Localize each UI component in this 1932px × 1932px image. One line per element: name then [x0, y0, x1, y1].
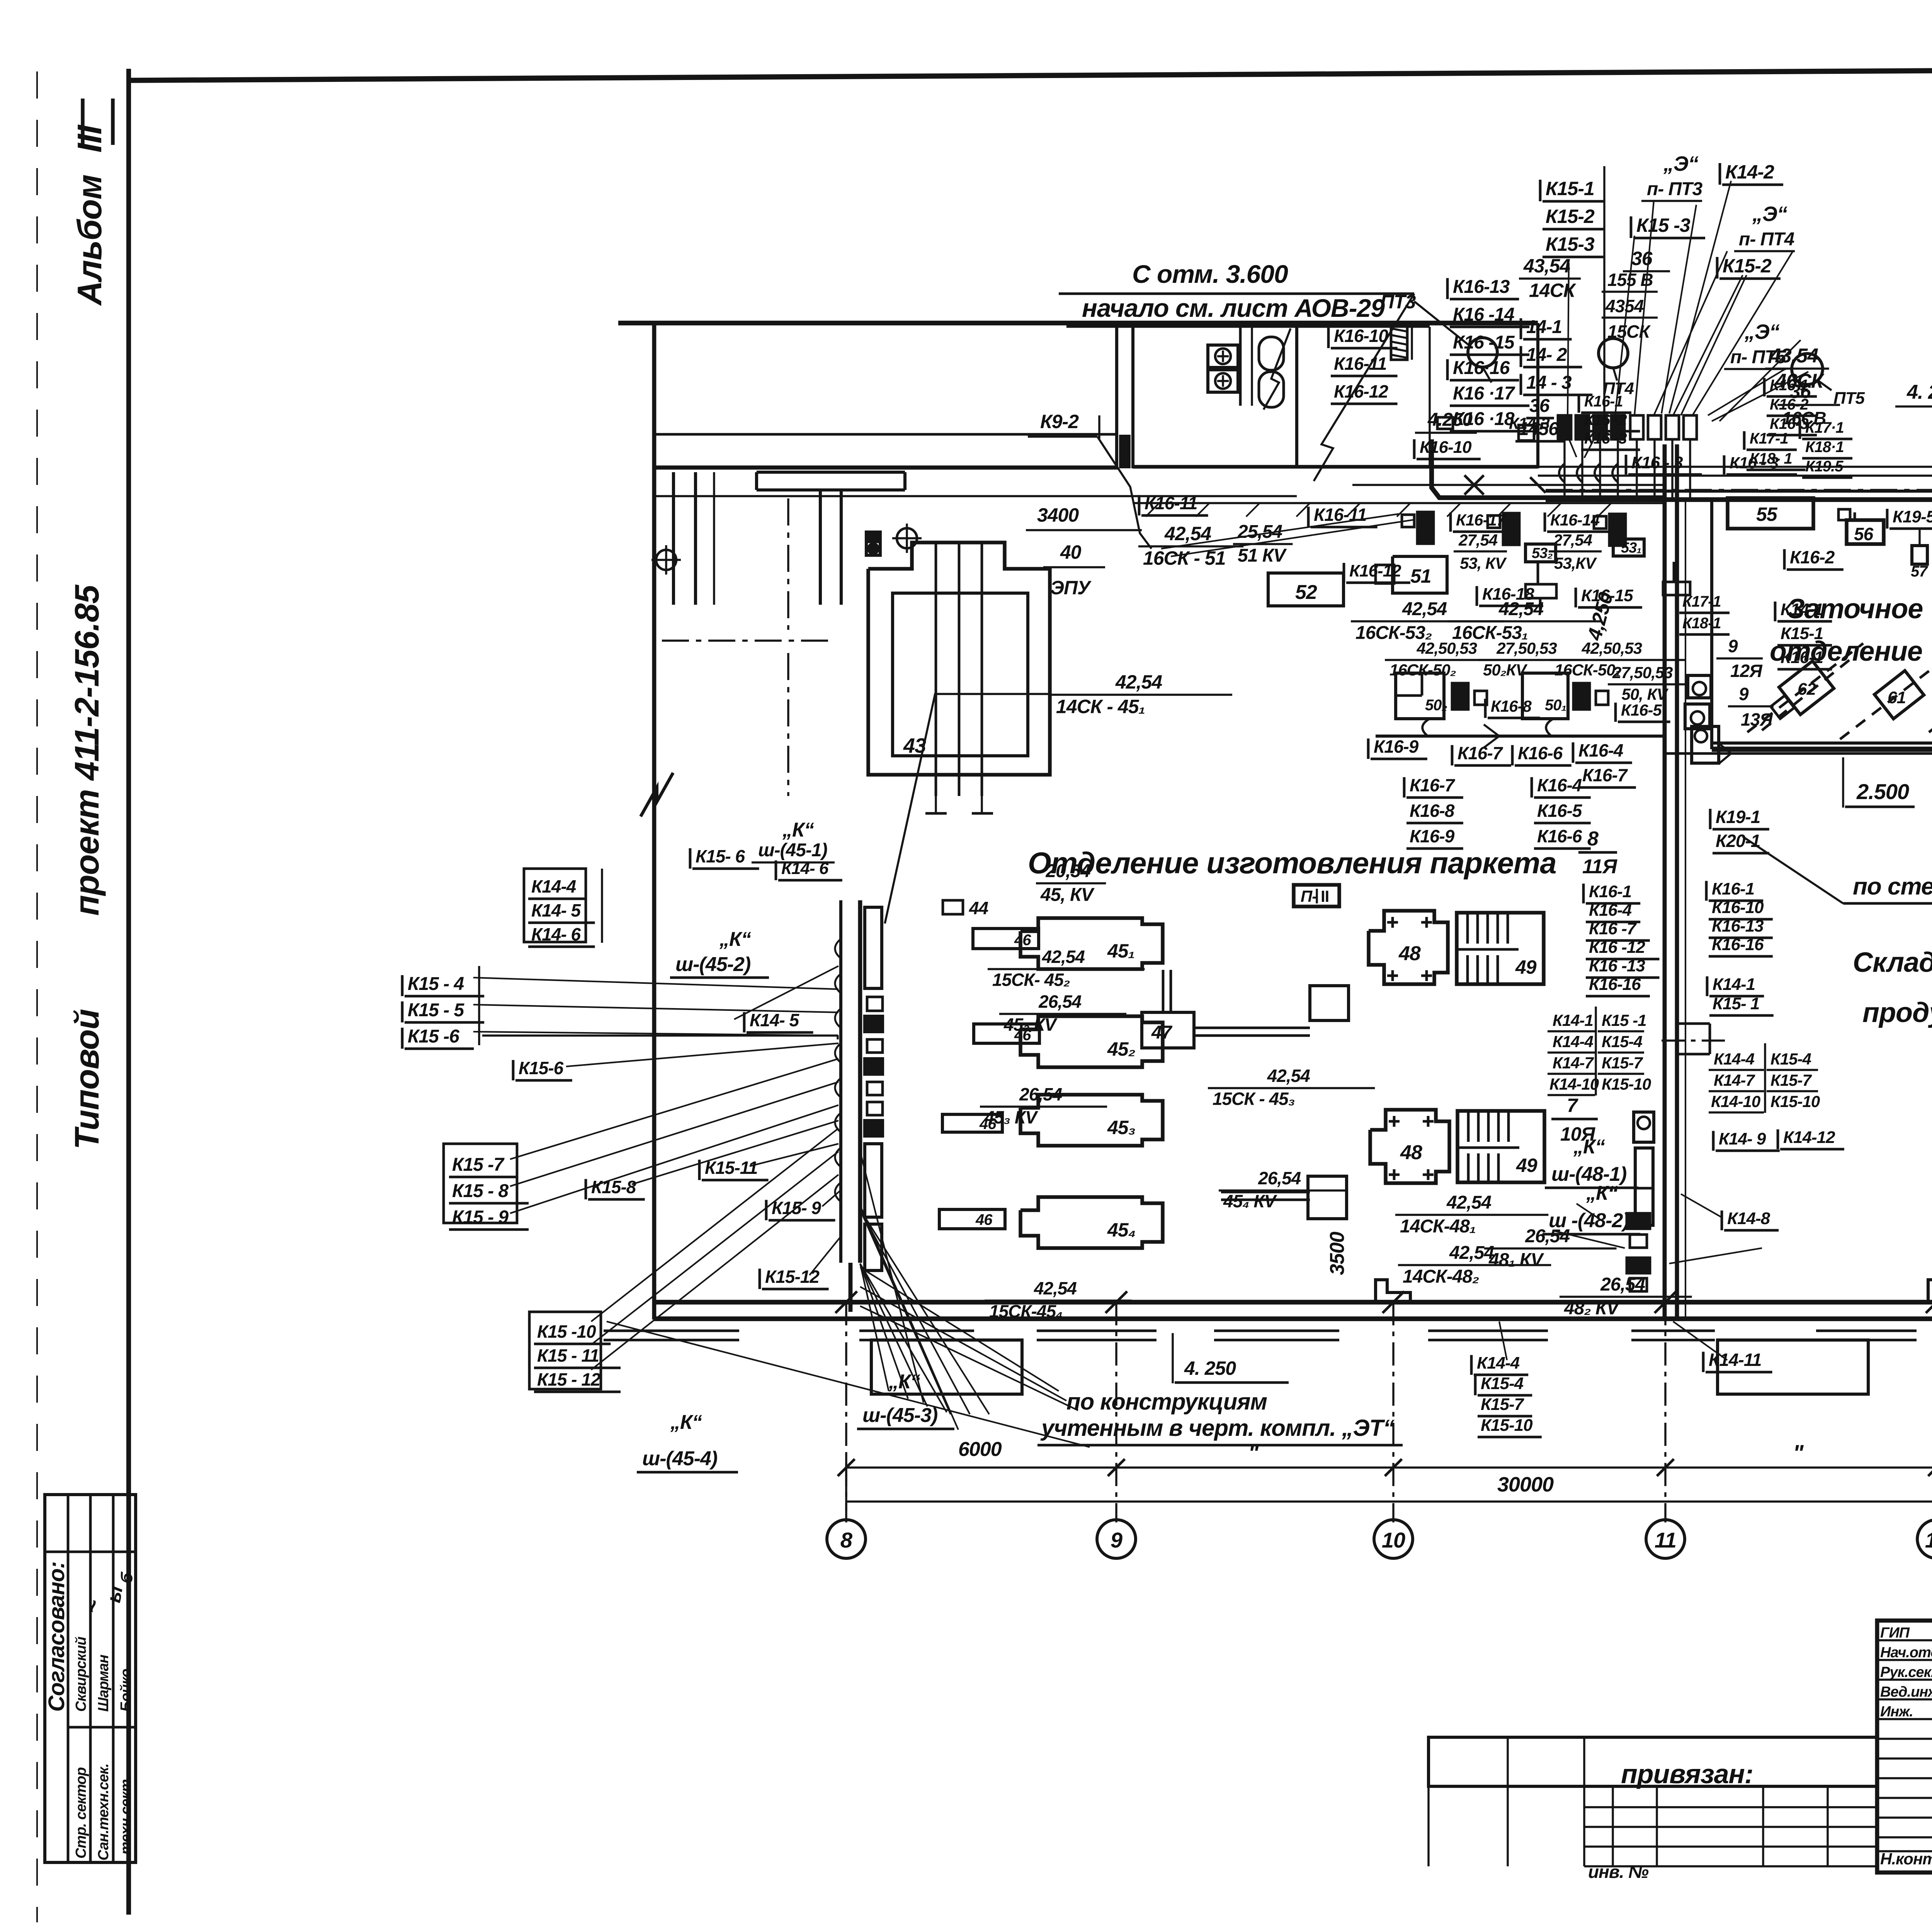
svg-text:15СК-45₄: 15СК-45₄ [989, 1301, 1063, 1321]
centerline dash-dot room43 [662, 639, 835, 641]
porch rect right [1718, 1340, 1868, 1394]
damper pair B [1488, 515, 1500, 528]
conveyor lower 48 [1221, 1191, 1310, 1194]
svg-text:45₁: 45₁ [1107, 940, 1134, 962]
machine 53-2 [1526, 544, 1556, 562]
fan from sh45-3 labels [860, 1264, 889, 1391]
svg-text:3500: 3500 [1326, 1231, 1349, 1275]
vertical dashdot through room 43 area [787, 498, 789, 630]
wall: under corridor T-beam [757, 471, 905, 474]
svg-text:42,54: 42,54 [1498, 599, 1543, 619]
svg-text:ш-(45-4): ш-(45-4) [642, 1447, 717, 1470]
svg-text:49: 49 [1516, 1155, 1537, 1176]
porch rect left [871, 1340, 1022, 1394]
stack К15-10/11/12 boxed [529, 1312, 601, 1389]
floor edge lines above wall [1538, 466, 1932, 468]
svg-text:К15-7: К15-7 [1481, 1395, 1525, 1414]
svg-text:„К“: „К“ [1573, 1136, 1605, 1158]
wall: bottom outer line [654, 1300, 1932, 1304]
svg-text:К16-6: К16-6 [1518, 743, 1563, 763]
svg-text:К16-1: К16-1 [1589, 882, 1631, 901]
svg-text:К16 -13: К16 -13 [1589, 956, 1645, 975]
wall: toilet block right wall [1536, 323, 1539, 468]
svg-text:Согласовано:: Согласовано: [44, 1561, 69, 1712]
svg-text:К15 -7: К15 -7 [452, 1155, 505, 1175]
svg-text:К16-6: К16-6 [1537, 826, 1582, 846]
wall: zatochnoe bottom lower [1712, 747, 1932, 752]
svg-text:ш-(45-3): ш-(45-3) [862, 1404, 937, 1427]
small box with circle 13Я [1685, 704, 1710, 729]
svg-text:52: 52 [1295, 581, 1317, 604]
svg-text:К15-4: К15-4 [1481, 1374, 1524, 1393]
svg-text:20,54: 20,54 [1045, 861, 1090, 881]
svg-text:„К“: „К“ [670, 1411, 702, 1434]
toilet right room fixtures [1429, 327, 1430, 467]
svg-text:ЭПУ: ЭПУ [1050, 577, 1092, 599]
svg-text:43,54: 43,54 [1523, 255, 1570, 277]
svg-text:К15-2: К15-2 [1546, 206, 1595, 227]
svg-text:Отделение изготовления паркета: Отделение изготовления паркета [1028, 846, 1556, 880]
svg-text:10: 10 [1382, 1528, 1405, 1552]
svg-text:К14-1: К14-1 [1713, 975, 1755, 994]
svg-text:Склад готовой: Склад готовой [1853, 947, 1932, 978]
svg-text:К9-2: К9-2 [1040, 411, 1079, 432]
svg-text:45₄: 45₄ [1107, 1219, 1136, 1241]
wall: bottom inner line [654, 1316, 1932, 1321]
svg-text:46: 46 [975, 1211, 993, 1228]
fan to по конструкциям [860, 1267, 1059, 1391]
feeder 46 for 453 [942, 1114, 1002, 1132]
conveyor 47 to 48 [1194, 1027, 1310, 1029]
svg-text:48: 48 [1398, 942, 1421, 965]
wall: zatochnoe bottom upper [1712, 742, 1932, 745]
wall: left wall of building [652, 323, 656, 1320]
svg-text:42,54: 42,54 [1446, 1192, 1491, 1213]
damper pair C [1594, 516, 1606, 529]
svg-text:42,54: 42,54 [1402, 599, 1447, 619]
svg-text:К14- 6: К14- 6 [531, 924, 581, 944]
svg-text:14- 2: 14- 2 [1526, 345, 1567, 365]
svg-text:49: 49 [1515, 956, 1537, 978]
svg-text:45₂: 45₂ [1107, 1038, 1135, 1060]
svg-text:К15-7: К15-7 [1770, 1071, 1812, 1089]
wall: pillar hatched left [672, 472, 675, 605]
wall channel components right [1634, 1112, 1654, 1142]
svg-text:К16-14: К16-14 [1550, 511, 1600, 529]
svg-text:Нач.отд.: Нач.отд. [1880, 1645, 1932, 1661]
corner component at channel bottom [1692, 726, 1719, 763]
label 44 box [943, 900, 963, 914]
svg-text:К15- 9: К15- 9 [772, 1198, 821, 1218]
svg-text:Шарман: Шарман [95, 1655, 112, 1712]
page frame: top border [129, 66, 1932, 80]
svg-text:48: 48 [1400, 1141, 1422, 1164]
svg-text:К16 -2: К16 -2 [1584, 412, 1627, 429]
svg-text:7: 7 [1567, 1095, 1578, 1116]
duct hook arcs [835, 939, 841, 958]
svg-text:К14- 5: К14- 5 [750, 1010, 800, 1030]
wall: thick wall K9-2 duct [1115, 323, 1118, 468]
svg-text:К15- 1: К15- 1 [1713, 994, 1759, 1013]
svg-text:45₄ КV: 45₄ КV [1223, 1191, 1277, 1211]
wall: toilet partition [1295, 325, 1298, 467]
feeder 48 lower [1308, 1176, 1347, 1219]
svg-text:8: 8 [1587, 828, 1599, 850]
svg-text:26,54: 26,54 [1525, 1226, 1570, 1247]
svg-text:ш-(45-2): ш-(45-2) [675, 953, 750, 976]
svg-text:К16 ·17: К16 ·17 [1453, 383, 1515, 404]
svg-text:ш-(45-1): ш-(45-1) [758, 840, 827, 861]
svg-text:50, КV: 50, КV [1622, 685, 1669, 703]
svg-text:53₁: 53₁ [1621, 540, 1641, 556]
svg-text:техн.сект.: техн.сект. [118, 1776, 134, 1855]
svg-text:36: 36 [1790, 381, 1811, 402]
svg-text:К14-1: К14-1 [1553, 1011, 1593, 1029]
duct channel vertical left [839, 900, 842, 1263]
svg-text:К16-7: К16-7 [1458, 743, 1503, 763]
svg-text:30000: 30000 [1497, 1473, 1554, 1496]
svg-text:26,54: 26,54 [1019, 1084, 1062, 1104]
svg-text:К16-4: К16-4 [1578, 740, 1623, 760]
svg-text:К14-3: К14-3 [1509, 414, 1550, 432]
svg-text:50₂: 50₂ [1425, 697, 1447, 714]
svg-text:Инж.: Инж. [1880, 1704, 1913, 1720]
svg-text:4. 250: 4. 250 [1906, 381, 1932, 403]
svg-text:„К“: „К“ [782, 819, 814, 841]
svg-text:по стене на скобах: по стене на скобах [1853, 873, 1932, 900]
column axis lines [845, 1302, 847, 1522]
svg-text:инв. №: инв. № [1588, 1862, 1649, 1882]
svg-text:57: 57 [1911, 563, 1928, 580]
svg-text:К16-12: К16-12 [1349, 561, 1401, 580]
stack К14-4/5/6 boxed [524, 869, 586, 942]
svg-text:привязан:: привязан: [1621, 1759, 1753, 1789]
duct components column [865, 907, 882, 988]
wall: central channel left [1663, 444, 1667, 1319]
svg-text:К16-13: К16-13 [1712, 917, 1764, 935]
svg-text:„Э“: „Э“ [1752, 202, 1787, 226]
svg-text:47: 47 [1151, 1022, 1173, 1043]
damper row boxes [1558, 415, 1571, 439]
machine 55 [1728, 498, 1813, 529]
svg-text:": " [1793, 1440, 1804, 1466]
wall: zatochnoe top inner [1546, 497, 1932, 502]
svg-text:Сан.техн.сек.: Сан.техн.сек. [95, 1764, 112, 1861]
svg-text:К15-1: К15-1 [1546, 178, 1594, 199]
svg-text:К15 - 9: К15 - 9 [452, 1207, 509, 1228]
feeder 46 for 451 [973, 929, 1039, 949]
svg-text:К15 - 12: К15 - 12 [537, 1369, 601, 1389]
damper near 50-1 [1573, 683, 1590, 709]
machine 45&#8321; body [1020, 918, 1163, 969]
svg-text:К16-8: К16-8 [1410, 801, 1455, 821]
svg-text:К15-10: К15-10 [1602, 1075, 1651, 1093]
svg-text:27,54: 27,54 [1458, 531, 1498, 549]
svg-text:Заточное: Заточное [1787, 594, 1923, 624]
svg-text:15СК: 15СК [1607, 321, 1651, 342]
box П-II [1294, 885, 1339, 906]
wall: central channel right [1675, 444, 1679, 1319]
door bump bottom 2 [1928, 1280, 1932, 1302]
svg-text:36: 36 [1529, 396, 1550, 416]
svg-text:„Э“: „Э“ [1663, 152, 1699, 175]
svg-text:К14-8: К14-8 [1727, 1209, 1770, 1228]
svg-text:К17·1: К17·1 [1805, 419, 1844, 436]
room 43 outer box [868, 543, 1050, 775]
svg-text:К14-7: К14-7 [1553, 1054, 1594, 1072]
wall: zatochnoe top outer [1546, 490, 1932, 493]
approval table box [45, 1495, 136, 1862]
svg-text:„Э“: „Э“ [1744, 320, 1780, 344]
svg-text:К16-4: К16-4 [1537, 775, 1582, 795]
page frame: left margin dashed fold line [36, 71, 38, 1922]
dimension line 30000 row [846, 1500, 1932, 1502]
svg-text:4.250: 4.250 [1427, 410, 1473, 430]
machine 50-2 [1396, 673, 1444, 719]
svg-text:К16-16: К16-16 [1589, 975, 1641, 994]
svg-text:11: 11 [1655, 1528, 1676, 1552]
svg-text:9: 9 [1111, 1528, 1122, 1552]
leader fan from cluster to damper row [1584, 419, 1604, 458]
svg-text:К16-7: К16-7 [1582, 765, 1628, 785]
svg-text:К14- 9: К14- 9 [1719, 1129, 1766, 1148]
svg-text:К14-7: К14-7 [1714, 1071, 1755, 1089]
machine 49 grate [1457, 913, 1544, 984]
svg-text:К16-16: К16-16 [1712, 935, 1764, 954]
column symbol mid [897, 528, 917, 548]
svg-text:46: 46 [1014, 932, 1031, 949]
svg-text:II: II [1321, 887, 1329, 905]
svg-text:п- ПТ4: п- ПТ4 [1739, 229, 1794, 250]
svg-text:48₂ КV: 48₂ КV [1564, 1298, 1621, 1319]
svg-text:45, КV: 45, КV [1040, 885, 1095, 905]
svg-text:по конструкциям: по конструкциям [1066, 1389, 1267, 1415]
machine 45&#8324; body [1020, 1197, 1163, 1248]
svg-text:С отм. 3.600: С отм. 3.600 [1132, 260, 1288, 288]
duct elbow bottom to wall [849, 1263, 853, 1312]
svg-text:К16-9: К16-9 [1374, 736, 1419, 757]
svg-text:„К“: „К“ [888, 1371, 920, 1393]
svg-text:Рук.сек.: Рук.сек. [1880, 1664, 1932, 1680]
svg-text:проект 411-2-156.85: проект 411-2-156.85 [68, 584, 106, 916]
duct arrows mid [1484, 736, 1499, 748]
svg-text:ГИП: ГИП [1880, 1625, 1910, 1641]
slab edge right part [1352, 484, 1665, 486]
svg-text:К16-9: К16-9 [1410, 826, 1455, 846]
svg-text:12Я: 12Я [1730, 661, 1763, 681]
duct arrows on zatochnoe wall [1719, 753, 1731, 763]
dimension line 6000 row [846, 1466, 1932, 1468]
svg-text:48₁ КV: 48₁ КV [1488, 1250, 1544, 1270]
left fan leader lines [473, 978, 838, 989]
svg-text:К16 -12: К16 -12 [1589, 938, 1645, 957]
svg-text:П-: П- [1301, 887, 1317, 905]
column symbol left [656, 550, 676, 570]
machine 48 cross [1369, 911, 1448, 984]
svg-text:К15- 6: К15- 6 [696, 846, 745, 866]
svg-text:42,54: 42,54 [1449, 1243, 1494, 1263]
PT4 circle [1599, 338, 1628, 368]
slab edge line 4.250 over hall [1133, 502, 1663, 504]
PT5 circle [1792, 354, 1823, 384]
svg-text:III: III [70, 124, 109, 153]
svg-text:К19-5: К19-5 [1893, 507, 1932, 526]
svg-text:51: 51 [1410, 565, 1431, 587]
svg-text:К14-10: К14-10 [1549, 1075, 1599, 1093]
svg-text:К15-4: К15-4 [1770, 1050, 1811, 1068]
svg-text:55: 55 [1756, 503, 1778, 525]
svg-text:К15-12: К15-12 [765, 1267, 820, 1287]
svg-text:К19-1: К19-1 [1716, 807, 1760, 827]
svg-text:К15 - 4: К15 - 4 [408, 974, 464, 994]
svg-text:Н.контр: Н.контр [1880, 1850, 1932, 1868]
svg-text:К18-1: К18-1 [1682, 615, 1721, 632]
svg-text:42,54: 42,54 [1042, 947, 1085, 967]
svg-text:42,54: 42,54 [1034, 1278, 1077, 1298]
feeder 46 for 452 [974, 1024, 1039, 1043]
svg-text:К16 -14: К16 -14 [1453, 304, 1514, 325]
svg-text:61: 61 [1888, 688, 1906, 707]
duct line below zatochnoe wall [1665, 752, 1932, 755]
svg-text:27,50,53: 27,50,53 [1612, 663, 1673, 682]
svg-text:53, КV: 53, КV [1460, 554, 1507, 572]
toilet fixtures square left [1208, 345, 1238, 367]
svg-text:К17-1: К17-1 [1682, 593, 1721, 610]
svg-text:2.500: 2.500 [1856, 779, 1909, 804]
machine 57 [1912, 546, 1927, 564]
axis tick crosses at wall [835, 1291, 857, 1313]
svg-text:6000: 6000 [958, 1438, 1002, 1461]
svg-text:К17-1: К17-1 [1750, 430, 1788, 447]
svg-text:К16-5: К16-5 [1621, 701, 1662, 719]
machine 52 box [1268, 573, 1344, 606]
machine 45&#8323; body [1020, 1095, 1163, 1146]
svg-text:14СК-48₁: 14СК-48₁ [1400, 1216, 1476, 1237]
feeder 48 upper [1310, 986, 1349, 1020]
duct under 50 machines [1376, 735, 1663, 738]
svg-text:К15-11: К15-11 [705, 1158, 758, 1178]
machine 62 rotated [1779, 661, 1834, 715]
wall: central channel third [1685, 500, 1686, 1319]
leaders channel bottom [1577, 1204, 1600, 1219]
wall channel tee [1677, 1022, 1710, 1025]
svg-text:42,54: 42,54 [1267, 1066, 1310, 1086]
vertical line from К15 stack [1603, 166, 1605, 417]
svg-text:К16-7: К16-7 [1410, 775, 1456, 795]
svg-text:К15-6: К15-6 [519, 1058, 564, 1078]
svg-text:Сквирский: Сквирский [73, 1636, 89, 1712]
svg-text:К16·16: К16·16 [1453, 358, 1510, 378]
svg-text:К20-1: К20-1 [1716, 831, 1760, 851]
svg-text:53,КV: 53,КV [1554, 554, 1597, 572]
black dampers at channel bottom [1627, 1213, 1650, 1229]
svg-text:45₃: 45₃ [1107, 1117, 1135, 1138]
svg-text:К16 -15: К16 -15 [1453, 332, 1515, 353]
toilet stall lines [1239, 327, 1242, 406]
svg-text:К14-12: К14-12 [1783, 1128, 1835, 1147]
svg-text:Стр. сектор: Стр. сектор [73, 1767, 89, 1859]
wall: corridor top [618, 321, 1538, 325]
svg-text:К16-10: К16-10 [1712, 898, 1764, 917]
svg-text:8: 8 [840, 1528, 853, 1552]
svg-text:К15 -1: К15 -1 [1602, 1011, 1646, 1029]
svg-text:56: 56 [1854, 524, 1874, 544]
привязан small table [1429, 1737, 1877, 1786]
svg-text:К19.5: К19.5 [1805, 458, 1844, 475]
svg-text:К16-12: К16-12 [1334, 381, 1388, 401]
damper pair A above 51 [1402, 515, 1414, 527]
svg-text:К16-17: К16-17 [1456, 511, 1506, 529]
svg-text:44: 44 [969, 898, 988, 918]
svg-text:К14-10: К14-10 [1711, 1092, 1760, 1111]
svg-text:9: 9 [1728, 636, 1738, 656]
extra top cluster leaders [1662, 205, 1696, 413]
svg-text:9: 9 [1739, 684, 1749, 704]
svg-text:3400: 3400 [1037, 504, 1079, 526]
svg-text:К14-4: К14-4 [1477, 1354, 1520, 1372]
svg-text:27,50,53: 27,50,53 [1496, 639, 1557, 657]
svg-text:К16-4: К16-4 [1589, 901, 1632, 920]
machine 50-1 [1522, 673, 1568, 719]
svg-text:45₃ КV: 45₃ КV [984, 1107, 1038, 1128]
svg-text:4354: 4354 [1605, 296, 1644, 316]
feeder 46 for 454 [939, 1209, 1005, 1229]
svg-text:12: 12 [1925, 1528, 1932, 1552]
wall: corridor bottom upper line [654, 433, 1117, 436]
stack К15-7/8/9 boxed [444, 1144, 517, 1223]
svg-text:К18- 1: К18- 1 [1750, 450, 1792, 467]
left attachment table [1584, 1785, 1877, 1787]
wall: toilet block bottom [1133, 465, 1538, 469]
machine 53-1 [1613, 539, 1644, 556]
svg-text:учтенным в черт. компл. „ЭТ“: учтенным в черт. компл. „ЭТ“ [1040, 1415, 1395, 1441]
machine 56 [1847, 520, 1884, 544]
svg-text:К14-4: К14-4 [1553, 1032, 1594, 1051]
machine 51 box [1393, 556, 1447, 593]
ЭПУ device box [866, 532, 880, 555]
svg-text:40: 40 [1060, 541, 1082, 563]
svg-text:К15 -3: К15 -3 [1636, 214, 1690, 236]
link line K15 stack to duct [482, 1034, 838, 1036]
duct main line under corridor [1432, 439, 1665, 498]
svg-text:14СК - 45₁: 14СК - 45₁ [1056, 696, 1145, 718]
svg-text:начало см. лист АОВ-29: начало см. лист АОВ-29 [1082, 294, 1385, 322]
svg-text:п- ПТ3: п- ПТ3 [1647, 179, 1702, 199]
axis Г dashdot [1546, 489, 1932, 491]
svg-text:К15 -10: К15 -10 [537, 1321, 596, 1342]
svg-text:К15-10: К15-10 [1770, 1092, 1820, 1111]
svg-text:27,54: 27,54 [1553, 531, 1592, 549]
svg-text:К16 -7: К16 -7 [1589, 919, 1637, 938]
svg-text:50₁: 50₁ [1545, 697, 1566, 714]
svg-text:42,54: 42,54 [1115, 671, 1162, 693]
svg-text:„К“: „К“ [719, 928, 751, 951]
svg-text:42,50,53: 42,50,53 [1582, 639, 1642, 657]
room 43 inner verticals [935, 543, 937, 796]
svg-text:К16-2: К16-2 [1790, 547, 1835, 567]
svg-text:14 - 3: 14 - 3 [1526, 372, 1572, 393]
column circles 8-13 [827, 1520, 866, 1558]
svg-text:42,50,53: 42,50,53 [1417, 639, 1477, 657]
machine 62 solid duct [1762, 659, 1851, 730]
svg-text:К15 - 8: К15 - 8 [452, 1181, 509, 1201]
svg-text:„К“: „К“ [1586, 1182, 1618, 1204]
small box with circle 12Я [1688, 675, 1711, 698]
title block outer box [1877, 1621, 1932, 1872]
svg-text:53₂: 53₂ [1532, 545, 1553, 561]
leader from A0B-29 note [1264, 328, 1291, 410]
svg-text:К15-8: К15-8 [591, 1177, 636, 1197]
